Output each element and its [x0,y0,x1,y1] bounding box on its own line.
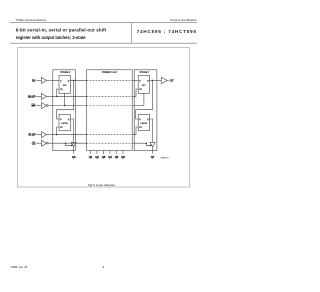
svg-text:ST_CP: ST_CP [28,133,35,137]
svg-text:6: 6 [103,265,105,269]
3-state buffer stage 0 [71,142,76,147]
Q5 output stub [116,151,118,154]
wire SH_CP to stages 1-6 [47,95,87,97]
svg-text:FF7: FF7 [142,85,146,87]
header bottom rule [10,42,197,44]
svg-text:FF0: FF0 [63,85,67,87]
svg-text:register with output latches;: register with output latches; 3-state [16,35,86,40]
svg-text:Q: Q [147,119,149,121]
wire OE to stages 1-6 [48,142,86,144]
svg-text:Q2: Q2 [95,155,99,159]
svg-text:Q: Q [68,119,70,121]
flip-flop FF7 [138,75,149,93]
FF0 pin labels [60,80,70,91]
wire ST_CP to stages 1-6 [47,134,87,136]
wire FF7 Q to Q7' buffer [149,79,161,81]
svg-text:D: D [139,80,141,82]
wire SH_CP label to buffer [36,95,41,97]
svg-text:STAGE 7: STAGE 7 [139,71,150,74]
latch FF7 [138,114,149,130]
enable arrowhead stage 7 [150,144,152,146]
header divider [130,23,132,44]
FF7 pin labels [139,80,149,91]
svg-text:Q4: Q4 [108,155,112,159]
Q4 output stub [109,151,111,154]
svg-text:Fig.5 Logic diagram.: Fig.5 Logic diagram. [88,183,116,187]
svg-text:Q7: Q7 [151,155,155,159]
svg-text:Q1: Q1 [89,155,93,159]
svg-text:D: D [60,119,62,121]
svg-text:Q6: Q6 [121,155,125,159]
dashed ST_CP line stages 1-6 [87,134,133,136]
node MR stage 0 [64,105,66,107]
svg-text:LATCH: LATCH [140,122,147,125]
wire stages 1-6 to FF7 D [132,79,138,81]
input buffer OE (inverting) [41,140,48,146]
wire FF0 Q to latch FF0 D [57,80,74,119]
wire MR to stages 1-6 [48,105,86,107]
svg-text:STAGE 0: STAGE 0 [60,71,71,74]
wire DS to buffer [36,79,41,81]
latch FF0 [59,114,70,130]
svg-text:SH_CP: SH_CP [28,94,36,98]
dashed data line stages 1-6 [87,79,133,81]
elbow OE to stage 0 enable [65,143,72,145]
svg-text:Q7’: Q7’ [170,80,174,83]
svg-text:OE: OE [32,141,36,145]
svg-text:74HC595 ; 74HCT595: 74HC595 ; 74HCT595 [137,29,197,34]
Q7' output buffer [161,77,167,83]
dashed OE line stages 1-6 [87,142,133,144]
input buffer ST_CP [41,132,46,138]
wire OE to stage 7 enable elbow [132,143,150,145]
svg-text:8-bit serial-in, serial or par: 8-bit serial-in, serial or parallel-out … [16,28,107,33]
figure frame [18,48,190,188]
Q3 output stub [103,151,105,154]
wire ST_CP label to buffer [36,134,41,136]
svg-text:CP: CP [60,127,63,129]
riser MR to FF0 R [64,93,66,105]
latch FF7 pin labels [139,119,149,129]
svg-text:Q: Q [68,80,70,82]
node SH_CP stage 0 [56,96,58,98]
Q7 output stub [152,147,154,154]
node FF7 Q branch [152,80,154,82]
enable arrowhead stage 0 [71,144,73,146]
input buffer SH_CP [41,93,46,99]
stage 0 box [53,70,76,151]
wire FF7 Q to latch FF7 D [136,80,153,119]
Q6 output stub [122,151,124,154]
wire OE label to buffer [36,142,41,144]
wire SH_CP to stage 7 riser [132,89,138,96]
svg-text:Q5: Q5 [115,155,119,159]
node OE stage 0 [65,142,67,144]
svg-text:Q0: Q0 [72,155,76,159]
riser SH_CP to FF0 CP [57,89,59,96]
stages 1 to 6 box [87,70,133,151]
stage 7 box [134,70,157,151]
node FF0 Q branch [73,80,75,82]
wire ST_CP to stage 7 riser [132,127,138,135]
latch FF0 pin labels [60,119,70,129]
dashed SH_CP line stages 1-6 [87,95,133,97]
wire buffer to FF0 D [47,79,59,81]
svg-text:Q3: Q3 [102,155,106,159]
svg-text:MR: MR [32,104,36,108]
header top rule [10,22,197,24]
wire latch FF7 Q to 3-state buffer [149,119,153,142]
svg-text:Philips Semiconductors: Philips Semiconductors [16,18,47,22]
svg-text:CP: CP [139,89,142,91]
svg-text:Q: Q [147,80,149,82]
Q1 output stub [90,151,92,154]
wire FF0 Q to stages 1-6 [70,79,86,81]
Q2 output stub [96,151,98,154]
svg-text:MNA549: MNA549 [161,157,170,160]
svg-text:STAGES 1 to 6: STAGES 1 to 6 [102,71,118,74]
input buffer MR (inverting) [41,103,48,109]
svg-text:D: D [60,80,62,82]
flip-flop FF0 [59,75,70,93]
svg-text:1998 Jun 25: 1998 Jun 25 [10,265,28,269]
node ST_CP stage 0 [56,134,58,136]
Q0 output stub [73,147,75,154]
wire MR label to buffer [36,105,41,107]
wire Q7' buffer to label [167,79,169,81]
output labels [72,155,155,159]
riser ST_CP to latch FF0 CP [57,127,60,135]
input buffer DS [41,77,46,83]
3-state buffer stage 7 [150,142,155,147]
node OE stage 7 [146,142,148,144]
svg-text:DS: DS [32,79,36,83]
wire latch FF0 Q to 3-state buffer [70,119,73,142]
svg-text:CP: CP [139,127,142,129]
svg-text:LATCH: LATCH [61,122,68,125]
svg-text:CP: CP [60,89,63,91]
dashed MR line stages 1-6 [87,105,133,107]
svg-text:Product specification: Product specification [170,18,197,22]
svg-text:D: D [139,119,141,121]
wire MR to FF7 R riser [132,93,144,105]
